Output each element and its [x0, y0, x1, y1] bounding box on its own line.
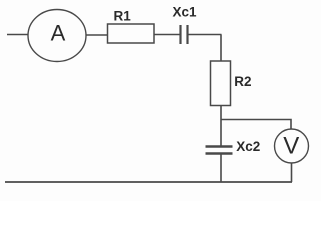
- svg-text:Xc2: Xc2: [236, 139, 260, 154]
- wire junction down to Xc2: [220, 120, 222, 147]
- svg-text:Xc1: Xc1: [173, 4, 198, 19]
- resistor R1: [108, 24, 155, 43]
- ammeter A: [28, 10, 86, 62]
- wire left input stub: [7, 34, 28, 36]
- svg-text:R2: R2: [234, 74, 251, 89]
- wire Xc1 to corner node: [189, 34, 222, 36]
- wire ammeter to R1: [86, 34, 108, 36]
- wire R2 to junction: [220, 106, 222, 120]
- svg-text:A: A: [51, 21, 66, 46]
- capacitor Xc2: [206, 147, 233, 154]
- wire bottom rail: [5, 181, 292, 183]
- wire R1 to Xc1: [154, 34, 180, 36]
- wire junction to voltmeter branch: [221, 120, 291, 130]
- wire Xc2 to bottom rail: [220, 155, 222, 183]
- voltmeter V: [275, 129, 309, 163]
- svg-text:R1: R1: [114, 9, 132, 24]
- wire corner down to R2: [220, 35, 222, 62]
- resistor R2: [211, 61, 231, 106]
- svg-text:V: V: [283, 133, 299, 160]
- wire voltmeter to bottom rail: [291, 163, 293, 182]
- capacitor Xc1: [181, 25, 188, 44]
